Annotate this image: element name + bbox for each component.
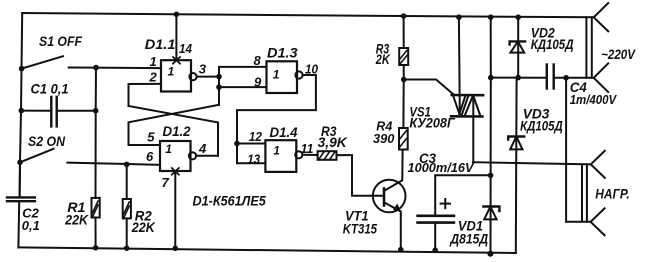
node C4 wire left (488, 75, 494, 81)
svg-text:КД105Д: КД105Д (520, 118, 563, 134)
node VD1 bottom (487, 251, 493, 257)
wire R4 to VT1 collector (402, 149, 404, 151)
capacitor C2 plates (7, 197, 35, 201)
node pin7 bottom (173, 246, 179, 252)
wire D1.4 output to R3 (302, 154, 317, 156)
capacitor C2 top lead (19, 162, 21, 197)
pin 14 wire (175, 14, 177, 60)
transistor VT1 circle (373, 180, 406, 213)
diode VD2 triangle (511, 41, 525, 52)
node R3 2K on top rail (401, 13, 407, 19)
svg-text:14: 14 (179, 41, 193, 56)
node pin14 on top rail (174, 12, 180, 18)
node load return (563, 75, 569, 81)
transistor VT1 collector (384, 150, 402, 191)
svg-text:КД105Д: КД105Д (531, 36, 574, 52)
svg-text:7: 7 (162, 175, 170, 190)
transistor VT1 emitter (384, 203, 401, 250)
wire C4 line (491, 77, 547, 79)
svg-text:0,1: 0,1 (22, 218, 40, 233)
resistor R1 bottom lead (95, 218, 97, 248)
node D1.1 out (216, 74, 222, 80)
terminal mains top fork (594, 3, 609, 31)
node D1.4 pin12 (234, 141, 240, 147)
diode VD3 bar (508, 137, 524, 140)
triac VS1 bottom lead (472, 95, 474, 162)
wire S1 to node A (69, 67, 96, 69)
node C1 left (19, 108, 25, 114)
svg-text:1: 1 (165, 142, 172, 156)
svg-text:10: 10 (305, 62, 319, 77)
triac VS1 right triangle sides (464, 95, 480, 116)
wire triac gate (404, 80, 454, 95)
svg-text:C1 0,1: C1 0,1 (31, 81, 69, 97)
svg-text:4: 4 (198, 141, 207, 156)
resistor R3 2K top lead (403, 16, 405, 48)
diode VD2 lead (517, 17, 519, 77)
gate D1.1 output circle (189, 73, 196, 80)
node C3 bottom (432, 247, 438, 253)
svg-text:1: 1 (150, 54, 157, 69)
node R2 top (124, 162, 130, 168)
switch S2 blade (20, 149, 54, 163)
svg-text:1: 1 (273, 68, 280, 82)
node R1 bottom (93, 245, 99, 251)
resistor R2 top lead (126, 164, 128, 199)
diode VD2 bar (510, 41, 525, 44)
svg-text:12: 12 (249, 129, 263, 144)
capacitor C1 plates (51, 97, 56, 127)
node A switch to gate (93, 65, 99, 71)
svg-text:KT315: KT315 (343, 220, 377, 236)
wire D1.4 pin 12 (237, 143, 265, 145)
gate D1.3 box (267, 61, 298, 93)
pin 7 X mark (172, 168, 179, 175)
wire C4 to plug (554, 77, 592, 79)
pin 7 wire (174, 171, 176, 248)
wire D1.2 output (196, 155, 218, 157)
node VD2 on top rail (515, 14, 521, 20)
triac VS1 left triangle sides (453, 95, 469, 114)
wire left supply rail (20, 13, 23, 197)
wire S2 to D1.2 pin 6 (67, 163, 160, 165)
svg-text:D1.4: D1.4 (270, 124, 298, 140)
wire left rail below C2 (17, 201, 20, 247)
gate D1.3 output circle (295, 71, 302, 78)
terminal mains bottom fork (594, 63, 609, 92)
node D1.3 pin9 (216, 84, 222, 90)
gate D1.4 output circle (295, 151, 302, 158)
wire D1.1 pin 2 (129, 84, 162, 106)
diode VD3 lead (515, 78, 518, 253)
pin 14 X mark (173, 57, 180, 64)
node R2 bottom (124, 245, 130, 251)
triac VS1 top lead (458, 17, 461, 114)
svg-text:D1-К561ЛЕ5: D1-К561ЛЕ5 (193, 192, 266, 208)
svg-text:1m/400V: 1m/400V (570, 92, 618, 107)
zener VD1 triangle (484, 207, 496, 220)
capacitor C3 bottom lead (434, 223, 436, 252)
terminal load bottom fork (591, 208, 605, 235)
resistor R3 2K bottom lead (403, 65, 405, 80)
wire D1.3 pin 9 (219, 86, 267, 88)
svg-text:~220V: ~220V (601, 46, 636, 62)
node C3 top (488, 173, 494, 179)
wire VD1 branch top vertical (490, 17, 492, 77)
gate D1.2 box (160, 141, 191, 171)
wire output node riser (218, 67, 220, 105)
svg-text:2K: 2K (375, 51, 390, 67)
wire riser node A to R1 (95, 68, 98, 198)
gate D1.1 box (161, 60, 191, 91)
wire load return vertical (565, 78, 567, 222)
capacitor C3 top wire (435, 175, 490, 215)
wire R3 to VT1 base (337, 155, 383, 196)
wire load bottom horizontal (566, 221, 591, 223)
gate D1.4 box (265, 140, 296, 172)
capacitor C1 right wire (57, 110, 96, 112)
svg-text:3: 3 (199, 61, 207, 76)
capacitor C4 plates (547, 65, 554, 89)
node S1 pivot (19, 66, 25, 72)
zener VD1 bar (483, 207, 499, 212)
svg-text:D1.3: D1.3 (267, 45, 298, 61)
node C1 right (93, 108, 99, 114)
wire mains cord left (585, 17, 587, 78)
svg-text:1: 1 (273, 144, 280, 158)
resistor R2 body (123, 199, 131, 218)
svg-text:КУ208Г: КУ208Г (409, 114, 456, 130)
svg-text:Д815Д: Д815Д (450, 230, 489, 246)
svg-text:9: 9 (254, 75, 262, 90)
wire VD1 branch vertical (490, 78, 492, 254)
svg-text:6: 6 (146, 149, 154, 164)
wire load cord left (581, 164, 583, 222)
diode VD3 triangle (510, 137, 522, 150)
transistor VT1 emitter arrow (393, 204, 401, 212)
wire D1.3 pin 8 (219, 66, 267, 68)
triac VS1 top bar (452, 94, 483, 97)
svg-text:5: 5 (147, 130, 155, 145)
wire D1.3 output to D1.4 inputs (237, 75, 316, 163)
wire bottom rail (18, 247, 515, 253)
capacitor C3 plus sign (441, 199, 450, 208)
svg-text:2: 2 (149, 70, 158, 85)
node VT1 emitter bottom (398, 247, 404, 253)
switch S1 blade (22, 56, 63, 68)
wire cross-couple B (D1.2 out to D1.1 pin2) (129, 106, 219, 156)
svg-text:D1.1: D1.1 (145, 36, 176, 52)
svg-text:22K: 22K (131, 219, 156, 235)
svg-text:1000m/16V: 1000m/16V (408, 160, 475, 175)
wire cross-couple A (D1.1 out to D1.2 pin5) (129, 105, 220, 145)
node VD2 VD3 junction (515, 75, 521, 81)
svg-text:S1 OFF: S1 OFF (39, 33, 82, 49)
gate D1.2 output circle (189, 152, 196, 159)
node S2 pivot (17, 160, 23, 166)
svg-text:13: 13 (247, 151, 261, 166)
resistor R3 2K body (399, 48, 408, 65)
wire load cord right (586, 164, 588, 222)
capacitor C1 left wire (21, 110, 51, 112)
resistor R4 body (399, 128, 408, 150)
svg-text:НАГР.: НАГР. (595, 186, 629, 202)
resistor R4 top lead (402, 80, 404, 129)
terminal load top fork (591, 151, 605, 178)
wire top supply rail (22, 13, 594, 17)
svg-text:11: 11 (301, 141, 314, 156)
resistor R1 body (92, 198, 100, 218)
node triac top on top rail (456, 14, 462, 20)
svg-text:22K: 22K (64, 212, 89, 228)
node gate junction (401, 77, 407, 83)
wire triac to load (473, 162, 591, 164)
wire D1.1 output to node (197, 76, 219, 78)
svg-text:8: 8 (254, 53, 262, 68)
svg-text:1: 1 (168, 64, 175, 78)
svg-text:D1.2: D1.2 (163, 123, 191, 139)
wire node A to D1.1 pin 1 (96, 67, 161, 70)
svg-text:3,9K: 3,9K (318, 134, 348, 150)
resistor R2 bottom lead (126, 218, 128, 248)
resistor R3 3.9K body (318, 151, 337, 160)
capacitor C3 plates (418, 216, 454, 223)
wire mains cord right (591, 17, 593, 78)
wire to D1.2 pin 5 (129, 144, 161, 146)
node VD1 line on top rail (488, 14, 494, 20)
triac VS1 bottom bar (451, 115, 482, 118)
transistor VT1 base bar (383, 189, 386, 206)
svg-text:S2 ON: S2 ON (28, 133, 66, 149)
svg-text:390: 390 (373, 131, 395, 146)
